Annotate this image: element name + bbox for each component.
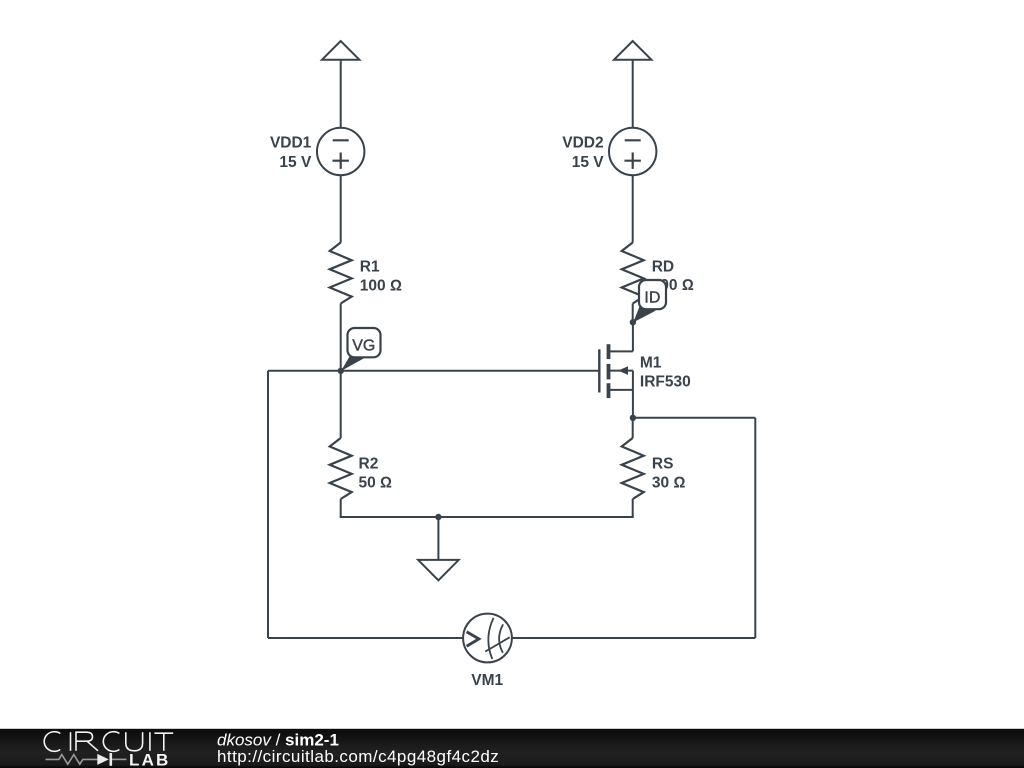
svg-text:M1: M1: [640, 354, 662, 371]
wire: [632, 175, 634, 242]
wire: [340, 175, 342, 242]
flag label ID: [633, 280, 666, 322]
wire: [340, 60, 342, 128]
footer title dkosov / sim2-1: [217, 731, 339, 750]
wire: [632, 418, 634, 438]
svg-text:IRF530: IRF530: [640, 374, 691, 391]
CircuitLab logo LAB: [129, 750, 171, 768]
svg-text:50 Ω: 50 Ω: [359, 475, 393, 492]
svg-text:100 Ω: 100 Ω: [360, 277, 402, 294]
resistor RD: [622, 243, 644, 304]
label VDD1 15 V: [270, 135, 312, 171]
voltmeter VM1: [463, 614, 512, 663]
svg-text:RD: RD: [652, 258, 674, 275]
resistor R1: [330, 243, 352, 304]
wire gate horizontal: [268, 370, 599, 372]
power flag VDD2 arrow: [614, 41, 651, 60]
svg-text:R2: R2: [359, 455, 379, 472]
svg-text:VM1: VM1: [471, 672, 503, 689]
label R2 50 ohm: [359, 455, 393, 491]
wire source to right: [633, 417, 755, 419]
voltage source VDD1: [317, 128, 364, 175]
svg-text:LAB: LAB: [129, 750, 171, 768]
wire bottom left: [268, 637, 463, 639]
label M1 IRF530: [640, 354, 691, 390]
wire: [340, 304, 342, 439]
node source junction: [630, 415, 636, 421]
svg-text:VDD2: VDD2: [562, 135, 603, 152]
label RS 30 ohm: [652, 455, 686, 491]
node drain probe: [630, 319, 636, 325]
flag label VG: [341, 328, 381, 371]
label RD 100 ohm: [652, 258, 694, 294]
footer bar: [0, 729, 1024, 768]
wire: [632, 499, 634, 517]
svg-text:VDD1: VDD1: [270, 135, 312, 152]
CircuitLab logo resistor-diode symbol: [46, 753, 127, 766]
CircuitLab logo CIRCUIT: [44, 732, 173, 752]
wire bottom center: [340, 516, 634, 518]
ground: [418, 517, 459, 580]
wire: [632, 304, 634, 323]
label VM1: [471, 672, 503, 689]
power flag VDD1 arrow: [322, 41, 359, 60]
transistor M1: [599, 344, 633, 418]
voltage source VDD2: [609, 128, 656, 175]
label R1 100 ohm: [360, 259, 402, 295]
footer url: [217, 747, 499, 766]
svg-text:R1: R1: [360, 259, 380, 276]
node ground junction: [435, 514, 441, 520]
node VG: [338, 368, 344, 374]
wire: [632, 60, 634, 128]
svg-text:ID: ID: [644, 289, 660, 306]
svg-text:30 Ω: 30 Ω: [652, 475, 686, 492]
svg-text:15 V: 15 V: [279, 154, 312, 171]
resistor R2: [330, 438, 352, 499]
resistor RS: [622, 438, 644, 499]
svg-text:VG: VG: [352, 338, 375, 355]
svg-text:15 V: 15 V: [572, 154, 605, 171]
label VDD2 15 V: [562, 135, 604, 171]
wire left rail: [267, 371, 269, 638]
wire: [512, 637, 755, 639]
svg-text:http://circuitlab.com/c4pg48gf: http://circuitlab.com/c4pg48gf4c2dz: [217, 747, 499, 766]
svg-text:RS: RS: [652, 455, 674, 472]
wire right rail: [754, 418, 756, 638]
wire: [340, 499, 342, 517]
wire drain vertical: [632, 322, 634, 351]
